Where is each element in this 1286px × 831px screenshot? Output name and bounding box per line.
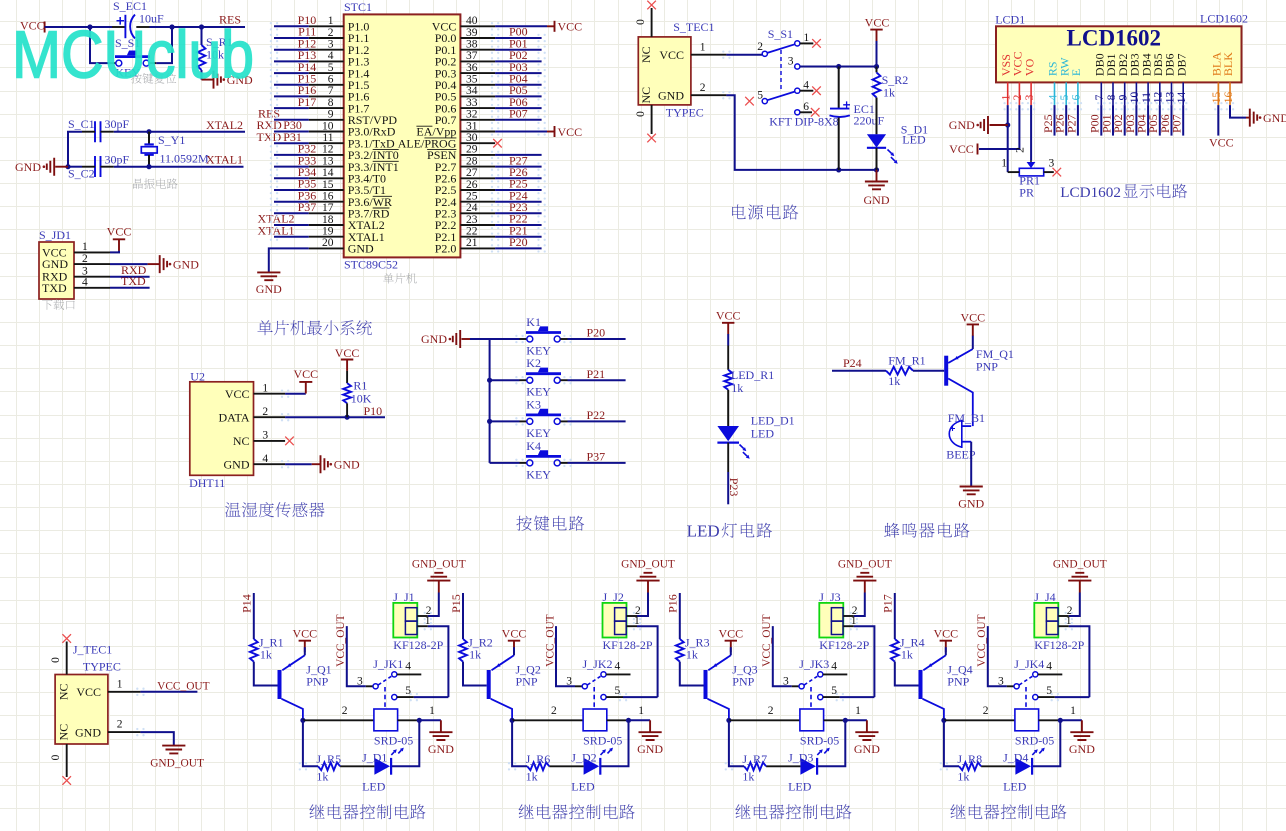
svg-text:0: 0 xyxy=(635,111,647,117)
switch pin 4 wire (relay 3) xyxy=(823,673,847,675)
svg-text:32: 32 xyxy=(466,109,478,121)
svg-text:VO: VO xyxy=(1022,58,1036,76)
svg-text:S_C2: S_C2 xyxy=(68,167,95,181)
transistor J_Q4 PNP xyxy=(919,670,923,699)
svg-text:4: 4 xyxy=(831,661,837,673)
no-ERC marker switch pin 6 xyxy=(811,108,820,117)
wire net P27 xyxy=(495,166,541,168)
pin 26 STC1 (P2.5) xyxy=(460,189,495,191)
wire LED_D1 to net P23 xyxy=(727,443,729,472)
ground GND (relay 3) xyxy=(866,720,868,732)
svg-text:9: 9 xyxy=(1118,94,1130,100)
svg-text:GND_OUT: GND_OUT xyxy=(1053,558,1107,570)
wire pin2 to GND_OUT xyxy=(140,732,173,746)
svg-text:12: 12 xyxy=(1153,92,1165,104)
wire VCC_OUT to switch pin 3 (relay 4) xyxy=(988,626,1007,686)
power port GND_OUT (relay 4) xyxy=(1079,581,1081,593)
node junction relay output (relay 4) xyxy=(1058,718,1063,723)
svg-text:4: 4 xyxy=(82,277,88,289)
svg-text:3: 3 xyxy=(783,675,789,687)
svg-text:PNP: PNP xyxy=(947,675,969,689)
svg-text:VCC: VCC xyxy=(107,224,132,238)
svg-text:0: 0 xyxy=(50,754,62,760)
resistor J_R7 1k xyxy=(766,765,800,767)
svg-text:P21: P21 xyxy=(587,367,606,381)
svg-text:1k: 1k xyxy=(742,769,754,783)
wire key K4 to net xyxy=(560,462,567,464)
ground GND (STC1) xyxy=(257,272,280,280)
pin 17 STC1 (P3.7/RD) xyxy=(309,212,344,214)
svg-text:5: 5 xyxy=(405,685,411,697)
svg-text:1: 1 xyxy=(82,241,88,253)
section title 继电器控制电路 (relay 2) xyxy=(519,804,635,819)
wire P15 to J_R2 xyxy=(462,593,464,639)
svg-text:34: 34 xyxy=(466,85,478,97)
power port GND_OUT (J_TEC1) xyxy=(162,746,185,754)
LED J_D2 xyxy=(584,758,600,775)
ground GND (DHT11) xyxy=(312,463,321,465)
wire net P35 xyxy=(274,189,309,191)
svg-text:22: 22 xyxy=(466,226,478,238)
pin 8 STC1 (P1.7) xyxy=(309,107,344,109)
svg-text:21: 21 xyxy=(466,237,478,249)
pin 0 top J_TEC1 xyxy=(66,642,68,675)
svg-text:VCC_OUT: VCC_OUT xyxy=(976,614,988,667)
pin 14 STC1 (P3.4/T0) xyxy=(309,177,344,179)
no-ERC marker J_TEC1 bottom xyxy=(62,776,71,785)
svg-text:15: 15 xyxy=(322,179,334,191)
svg-text:7: 7 xyxy=(1094,94,1106,100)
wire net P16 xyxy=(274,95,309,97)
svg-text:28: 28 xyxy=(466,155,478,167)
relay SRD-05 coil (relay 2) xyxy=(583,709,607,731)
svg-text:J_D3: J_D3 xyxy=(788,750,813,764)
wire J_R6 to collector node (relay 2) xyxy=(512,720,527,766)
svg-text:3: 3 xyxy=(1024,94,1036,100)
svg-text:J_R8: J_R8 xyxy=(957,752,982,766)
svg-text:P15: P15 xyxy=(449,594,463,613)
svg-text:P10: P10 xyxy=(364,404,383,418)
svg-text:0: 0 xyxy=(635,19,647,25)
svg-text:K4: K4 xyxy=(526,439,541,453)
svg-text:GND: GND xyxy=(224,457,250,471)
wire J_R1 to base J_Q1 xyxy=(254,662,278,686)
switch pin 5 (relay 4) xyxy=(1033,695,1038,700)
switch pin 5 (relay 2) xyxy=(601,695,606,700)
wire key K3 to net xyxy=(560,420,567,422)
svg-text:1k: 1k xyxy=(469,647,481,661)
wire LCD pin1 VSS down xyxy=(1007,105,1009,172)
pin 33 STC1 (P0.6) xyxy=(460,107,495,109)
svg-text:XTAL1: XTAL1 xyxy=(258,223,295,237)
svg-text:1k: 1k xyxy=(526,769,538,783)
wire P24 to FM_R1 xyxy=(832,370,886,372)
svg-text:GND: GND xyxy=(864,193,890,207)
svg-text:VCC: VCC xyxy=(718,626,743,640)
wire net RXD xyxy=(110,276,150,278)
svg-text:S_TEC1: S_TEC1 xyxy=(673,20,714,34)
svg-text:1k: 1k xyxy=(957,769,969,783)
svg-text:J_R7: J_R7 xyxy=(742,752,767,766)
svg-text:P27: P27 xyxy=(1064,114,1078,133)
section title 继电器控制电路 (relay 1) xyxy=(309,804,425,819)
wire LCD pin15 BLA to VCC xyxy=(1217,105,1219,136)
wire pin1 to VCC xyxy=(110,251,119,253)
svg-text:25: 25 xyxy=(466,190,478,202)
svg-text:2: 2 xyxy=(1014,147,1026,153)
wire net P36 xyxy=(274,201,309,203)
no-ERC marker S_TEC1 top xyxy=(647,1,656,10)
ground GND (LCD right) xyxy=(1246,117,1250,119)
power symbol VCC (LCD) xyxy=(977,144,979,155)
section title 温湿度传感器 xyxy=(225,502,324,517)
svg-text:1: 1 xyxy=(429,705,435,717)
svg-text:5: 5 xyxy=(615,685,621,697)
wire pin3 to VCC rail xyxy=(800,66,877,68)
wire net P07 (LCD) xyxy=(1182,105,1184,136)
pin 0 bottom J_TEC1 xyxy=(66,744,68,777)
power port GND_OUT (relay 1) xyxy=(438,581,440,593)
pin 36 STC1 (P0.3) xyxy=(460,72,495,74)
svg-text:J_JK3: J_JK3 xyxy=(799,657,829,671)
svg-text:PR: PR xyxy=(1019,186,1034,200)
svg-text:2: 2 xyxy=(117,719,123,731)
wire P14 to J_R1 xyxy=(253,593,255,639)
svg-text:36: 36 xyxy=(466,62,478,74)
svg-text:3: 3 xyxy=(788,56,794,68)
relay SRD-05 coil (relay 4) xyxy=(1015,709,1039,731)
svg-text:J_D2: J_D2 xyxy=(571,750,596,764)
potentiometer PR1 PR xyxy=(1030,161,1032,163)
svg-text:LCD1: LCD1 xyxy=(995,13,1025,27)
capacitor S_C2 30pF xyxy=(95,156,101,177)
svg-text:MCUclub: MCUclub xyxy=(12,18,254,93)
wire net P11 xyxy=(274,37,309,39)
wire junction down to LED (relay 3) xyxy=(817,720,845,766)
svg-text:LCD1602: LCD1602 xyxy=(1067,25,1162,50)
pin 37 STC1 (P0.2) xyxy=(460,60,495,62)
svg-text:XTAL2: XTAL2 xyxy=(206,118,243,132)
transistor J_Q1 PNP xyxy=(278,670,282,699)
svg-text:30pF: 30pF xyxy=(105,153,130,167)
svg-text:P17: P17 xyxy=(298,95,317,109)
svg-text:3: 3 xyxy=(328,38,334,50)
svg-text:R1: R1 xyxy=(353,378,367,392)
wire collector to relay coil (relay 2) xyxy=(512,719,583,721)
power symbol VCC (S_JD1) xyxy=(113,239,125,250)
svg-text:39: 39 xyxy=(466,27,478,39)
no-ERC marker switch pin 1 xyxy=(812,39,821,48)
wire XTAL1 net xyxy=(68,166,82,168)
annotation 按键复位 xyxy=(131,73,176,84)
resistor J_R4 1k xyxy=(891,639,899,662)
relay SRD-05 coil (relay 1) xyxy=(374,709,398,731)
wire net P06 xyxy=(495,107,541,109)
wire net P03 (LCD) xyxy=(1135,105,1137,136)
svg-text:LED: LED xyxy=(362,779,386,793)
wire net P26 xyxy=(495,177,541,179)
svg-text:GND: GND xyxy=(1069,742,1095,756)
svg-text:5: 5 xyxy=(831,685,837,697)
pin 29 STC1 (PSEN) xyxy=(460,154,495,156)
svg-text:J_R6: J_R6 xyxy=(526,752,551,766)
resistor J_R5 1k xyxy=(340,765,374,767)
wire collector to relay coil (relay 1) xyxy=(303,719,374,721)
svg-text:4: 4 xyxy=(328,50,334,62)
svg-text:KEY: KEY xyxy=(526,426,551,440)
svg-text:11: 11 xyxy=(322,132,333,144)
wire net P05 (LCD) xyxy=(1159,105,1161,136)
wire net P10 xyxy=(274,25,309,27)
pin 39 STC1 (P0.0) xyxy=(460,37,495,39)
svg-text:LCD1602: LCD1602 xyxy=(1200,12,1248,26)
svg-text:VCC: VCC xyxy=(76,685,101,699)
svg-text:P2.0: P2.0 xyxy=(435,242,457,256)
svg-text:TXD: TXD xyxy=(42,281,67,295)
wire J_R2 to base J_Q2 xyxy=(463,662,487,686)
LED_D1 arrows xyxy=(740,445,744,449)
svg-text:GND: GND xyxy=(334,457,360,471)
pin 32 STC1 (P0.7) xyxy=(460,119,495,121)
no-ERC marker J_TEC1 top xyxy=(62,634,71,643)
svg-text:PNP: PNP xyxy=(732,675,754,689)
svg-text:K2: K2 xyxy=(526,356,541,370)
wire net P25 xyxy=(495,189,541,191)
no-ERC marker S_TEC1 bottom xyxy=(647,134,656,143)
svg-text:1: 1 xyxy=(262,383,268,395)
wire net P20 xyxy=(495,247,541,249)
svg-text:P24: P24 xyxy=(843,356,862,370)
svg-text:4: 4 xyxy=(615,661,621,673)
svg-text:SRD-05: SRD-05 xyxy=(374,734,413,748)
pushbutton S_S2 KEY (reset) xyxy=(90,27,109,63)
svg-text:KEY: KEY xyxy=(526,467,551,481)
pin 0 bottom S_TEC1 xyxy=(651,105,653,134)
svg-text:TYPEC: TYPEC xyxy=(666,106,704,120)
svg-text:1: 1 xyxy=(804,32,810,44)
pin 2 STC1 (P1.1) xyxy=(309,37,344,39)
power port GND_OUT (relay 3) xyxy=(864,581,866,593)
svg-text:KF128-2P: KF128-2P xyxy=(393,638,443,652)
svg-text:GND: GND xyxy=(421,332,447,346)
svg-text:P17: P17 xyxy=(881,594,895,613)
node junction collector (relay 3) xyxy=(726,718,731,723)
svg-text:VCC_OUT: VCC_OUT xyxy=(157,680,210,692)
wire junction to GND (relay 1) xyxy=(419,719,441,721)
svg-text:NC: NC xyxy=(57,724,71,741)
pin 11 STC1 (P3.1/TxD) xyxy=(309,142,344,144)
svg-text:19: 19 xyxy=(322,226,334,238)
wire junction down to LED (relay 2) xyxy=(600,720,628,766)
wire J_R4 to base J_Q4 xyxy=(895,662,919,686)
transistor J_Q2 PNP xyxy=(487,670,491,699)
svg-text:GND_OUT: GND_OUT xyxy=(412,558,466,570)
svg-text:24: 24 xyxy=(466,202,478,214)
svg-text:4: 4 xyxy=(262,453,268,465)
power symbol VCC (pin 40) xyxy=(547,25,555,27)
switch pin 4 wire (relay 4) xyxy=(1038,673,1062,675)
annotation 晶振电路 xyxy=(133,178,178,189)
svg-text:NC: NC xyxy=(639,46,653,63)
svg-text:K3: K3 xyxy=(526,397,541,411)
svg-text:2: 2 xyxy=(82,253,88,265)
svg-text:31: 31 xyxy=(466,120,478,132)
svg-text:DB7: DB7 xyxy=(1174,53,1188,76)
switch pin 4 wire (relay 1) xyxy=(397,673,421,675)
svg-text:1: 1 xyxy=(117,679,123,691)
wire VCC_OUT to switch pin 3 (relay 1) xyxy=(347,626,366,686)
capacitor EC1 220uF (polarized) xyxy=(838,67,840,109)
pin 21 STC1 (P2.0) xyxy=(460,247,495,249)
pin 20 STC1 (GND) xyxy=(309,247,344,249)
svg-text:GND: GND xyxy=(658,88,684,102)
ground GND (S_JD1) xyxy=(148,263,160,265)
svg-text:5: 5 xyxy=(328,62,334,74)
transistor FM_Q1 PNP xyxy=(944,356,948,386)
svg-text:2: 2 xyxy=(757,41,763,53)
section title 电源电路 xyxy=(732,204,798,219)
resistor J_R3 1k xyxy=(676,639,684,662)
wire net P15 xyxy=(274,84,309,86)
pin 38 STC1 (P0.1) xyxy=(460,49,495,51)
svg-text:P22: P22 xyxy=(587,408,606,422)
svg-text:27: 27 xyxy=(466,167,478,179)
switch link dashed (relay 3) xyxy=(810,687,812,709)
svg-text:12: 12 xyxy=(322,144,334,156)
svg-text:LED: LED xyxy=(751,426,775,440)
svg-text:3: 3 xyxy=(357,675,363,687)
svg-text:2: 2 xyxy=(262,406,268,418)
ground GND (buzzer) xyxy=(960,487,983,495)
pin 22 STC1 (P2.1) xyxy=(460,236,495,238)
wire emitter to VCC xyxy=(972,336,974,350)
wire U2 pin1 to VCC xyxy=(285,393,306,395)
transistor J_Q3 PNP xyxy=(704,670,708,699)
wire VCC_OUT to switch pin 3 (relay 2) xyxy=(556,626,575,686)
annotation 下载口 xyxy=(42,299,75,309)
wire key K1 to net xyxy=(560,338,567,340)
pin 24 STC1 (P2.3) xyxy=(460,212,495,214)
svg-text:VCC: VCC xyxy=(293,367,318,381)
svg-text:40: 40 xyxy=(466,15,478,27)
wire net P04 xyxy=(495,84,541,86)
svg-text:KF128-2P: KF128-2P xyxy=(603,638,653,652)
svg-text:1: 1 xyxy=(1001,94,1013,100)
wire collector to relay coil (relay 4) xyxy=(944,719,1015,721)
node junction relay output (relay 1) xyxy=(417,718,422,723)
wire J_R5 to collector node (relay 1) xyxy=(303,720,318,766)
ground GND (relay 1) xyxy=(440,720,442,732)
no-ERC marker switch pin 4 xyxy=(812,86,821,95)
svg-text:3: 3 xyxy=(998,675,1004,687)
svg-text:S_Y1: S_Y1 xyxy=(158,133,185,147)
svg-text:J_JK2: J_JK2 xyxy=(583,657,613,671)
wire net TXD (pin 11) xyxy=(274,142,309,144)
svg-text:VCC: VCC xyxy=(225,387,250,401)
pin 5 STC1 (P1.4) xyxy=(309,72,344,74)
svg-text:220uF: 220uF xyxy=(854,114,885,128)
svg-text:4: 4 xyxy=(1047,94,1059,100)
svg-text:GND: GND xyxy=(428,742,454,756)
wire VCC rail to RES xyxy=(45,26,112,28)
svg-text:S_JD1: S_JD1 xyxy=(39,228,71,242)
no-ERC marker U2 pin3 NC xyxy=(285,437,294,446)
no-ERC marker pin 30 xyxy=(493,139,502,148)
LED LED_D1 xyxy=(727,390,729,426)
svg-text:30pF: 30pF xyxy=(105,117,130,131)
svg-text:2: 2 xyxy=(551,705,557,717)
node junction collector (relay 2) xyxy=(509,718,514,723)
relay action arrows (relay 3) xyxy=(817,752,820,755)
switch pin 6 xyxy=(795,110,800,115)
svg-text:8: 8 xyxy=(328,97,334,109)
svg-text:LED: LED xyxy=(571,779,595,793)
wire VCC to rail xyxy=(876,41,878,67)
svg-text:FM_R1: FM_R1 xyxy=(888,353,925,367)
svg-text:2: 2 xyxy=(328,27,334,39)
pin 34 STC1 (P0.5) xyxy=(460,95,495,97)
svg-text:E: E xyxy=(1069,69,1083,76)
svg-text:4: 4 xyxy=(1046,661,1052,673)
no-ERC marker switch pin 5 xyxy=(745,97,754,106)
pin 6 STC1 (P1.5) xyxy=(309,84,344,86)
LED J_D3 xyxy=(800,758,816,775)
section title 蜂鸣器电路 xyxy=(884,523,969,538)
no-ERC marker PR1 pin3 xyxy=(1053,168,1062,177)
wire net P22 xyxy=(495,224,541,226)
wire net P01 xyxy=(495,49,541,51)
svg-text:VCC: VCC xyxy=(933,626,958,640)
wire pin1 to switch xyxy=(726,54,762,56)
svg-text:KF128-2P: KF128-2P xyxy=(819,638,869,652)
svg-text:26: 26 xyxy=(466,179,478,191)
section title 继电器控制电路 (relay 4) xyxy=(950,804,1066,819)
wire net P25 (LCD) xyxy=(1054,105,1056,136)
svg-text:GND: GND xyxy=(1263,111,1286,125)
resistor J_R8 1k xyxy=(981,765,1015,767)
svg-text:0: 0 xyxy=(50,657,62,663)
capacitor S_EC1 10uF xyxy=(124,15,126,38)
svg-text:1: 1 xyxy=(855,705,861,717)
pin 18 STC1 (XTAL2) xyxy=(309,224,344,226)
pin 13 STC1 (P3.3/INT1) xyxy=(309,166,344,168)
svg-text:18: 18 xyxy=(322,214,334,226)
svg-text:VCC: VCC xyxy=(865,16,890,30)
resistor S_R2 1k xyxy=(876,67,878,73)
wire junction to GND (relay 3) xyxy=(845,719,867,721)
svg-text:17: 17 xyxy=(322,202,334,214)
wire pin 31 EA/Vpp to VCC xyxy=(495,131,547,133)
svg-text:6: 6 xyxy=(1071,94,1083,100)
svg-text:GND: GND xyxy=(15,160,41,174)
pin 23 STC1 (P2.2) xyxy=(460,224,495,226)
wire junction to GND (relay 4) xyxy=(1060,719,1082,721)
ground GND (keys) xyxy=(453,330,460,348)
svg-text:TXD: TXD xyxy=(257,130,282,144)
pin 31 STC1 (EA/Vpp) xyxy=(460,131,495,133)
svg-text:P37: P37 xyxy=(587,450,606,464)
wire junction down to LED (relay 4) xyxy=(1032,720,1060,766)
wire GND to key bus xyxy=(462,338,471,340)
wire net P02 xyxy=(495,60,541,62)
wire J_R7 to collector node (relay 3) xyxy=(729,720,744,766)
relay SRD-05 coil (relay 3) xyxy=(800,709,824,731)
wire net P37 xyxy=(274,212,309,214)
wire net P03 xyxy=(495,72,541,74)
svg-text:6: 6 xyxy=(803,101,809,113)
wire junction to GND (relay 2) xyxy=(629,719,651,721)
wire collector to buzzer xyxy=(972,422,974,426)
